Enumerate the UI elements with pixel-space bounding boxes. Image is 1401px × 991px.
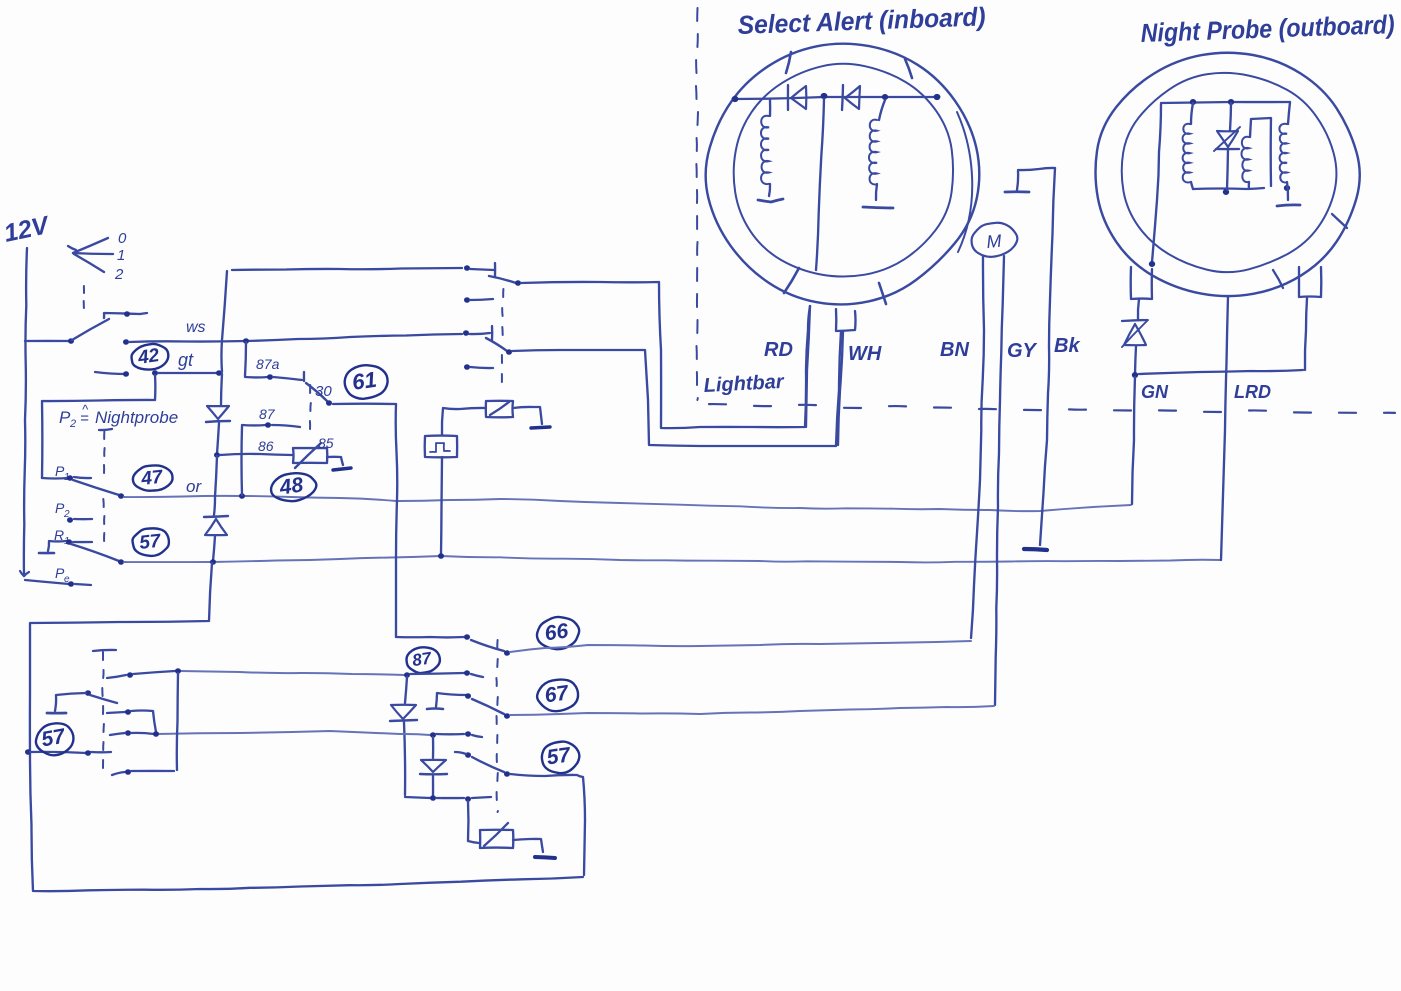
wire RD [806, 306, 810, 427]
contact dot B out [506, 349, 512, 355]
np coil2 tail [1248, 182, 1251, 189]
select alert inner ring [734, 64, 953, 277]
junction row5 box [25, 749, 31, 755]
wire row6 [131, 770, 174, 772]
wire motor GY [995, 256, 1004, 705]
svg-text:30: 30 [315, 383, 332, 400]
wire coil1 tail [769, 184, 770, 196]
stub 87 right [272, 425, 300, 427]
junction or/87coil [239, 493, 245, 499]
contact dot row6 L [125, 769, 131, 775]
stub P1 throw [74, 477, 91, 478]
contact dot row4 [465, 731, 471, 737]
wire lamp bus [735, 97, 937, 99]
np terminal dot1 [1190, 99, 1196, 105]
np ground coil3 [1277, 205, 1300, 206]
wire 87 down left [405, 677, 407, 703]
label selector position 0 [118, 230, 127, 247]
wire timer right to ground [513, 407, 542, 424]
pulse generator box [425, 436, 457, 458]
label R1 [54, 527, 70, 547]
wire BK down [1040, 168, 1055, 545]
label P1 [55, 463, 70, 483]
dashed separator horizontal [709, 404, 1395, 413]
svg-text:GY: GY [1007, 340, 1038, 362]
contact dot Pe [68, 581, 74, 587]
pulse timer box 2 [480, 823, 513, 848]
label selector position 2 [114, 266, 124, 283]
timer box T1 [486, 401, 513, 418]
np terminal dot2 [1228, 99, 1234, 105]
contact A ticks [470, 263, 495, 276]
connector WH pin [836, 309, 856, 331]
np diode D5 [1214, 127, 1240, 151]
stub Pe [75, 584, 91, 585]
wire GN diode to junction [1135, 346, 1136, 374]
wire bottom box [30, 563, 583, 891]
label Night Probe (outboard) [1140, 9, 1395, 48]
wire 87 to contact [410, 673, 464, 674]
svg-text:67: 67 [543, 681, 571, 707]
np coil1 tail [1191, 182, 1193, 189]
diode D3 [788, 85, 806, 110]
relay contact 67 circle [535, 677, 580, 714]
switch blade P1 [73, 480, 119, 495]
contact dot bottom row [465, 796, 471, 802]
np coil L4 [1242, 137, 1250, 182]
junction 86 [214, 452, 220, 458]
np coil1 hang [1191, 103, 1193, 124]
terminal dot C [821, 93, 828, 99]
wire diode bus mid [221, 374, 222, 405]
label BN [940, 339, 969, 361]
svg-text:87: 87 [259, 406, 276, 422]
relay contact 57 circle upper [131, 527, 170, 558]
wire 85 to ground [327, 457, 343, 465]
junction pulse/57 [438, 553, 444, 559]
wire pulse2 right [513, 839, 543, 852]
stub 67 bracket [427, 693, 466, 709]
np wire center top [1230, 103, 1231, 130]
diode D4 [842, 85, 860, 110]
wire right vert link [177, 673, 178, 770]
stub P2 [74, 518, 92, 521]
wire 57 bus [124, 556, 1221, 562]
arrowhead 12V bus bottom [20, 571, 29, 576]
motor M circle [969, 220, 1019, 259]
np junction bottom [1223, 189, 1229, 195]
np coil3 dot [1284, 185, 1290, 191]
wire gt stub [95, 372, 126, 374]
selector throw stub upper [104, 313, 147, 318]
svg-text:86: 86 [258, 438, 274, 454]
contact dot 87a [267, 374, 273, 380]
np coil3 tail [1287, 182, 1288, 200]
svg-text:2: 2 [114, 266, 124, 283]
relay contact 47 circle [132, 464, 174, 493]
junction bottom row left [430, 795, 436, 801]
stub 57L [455, 752, 466, 754]
switch blade A [489, 276, 516, 283]
switch blade R1 [71, 544, 119, 561]
label 86 [258, 438, 274, 454]
np terminal dot left [1149, 261, 1155, 267]
stub A nc [470, 299, 493, 300]
tick left relay top [93, 650, 116, 651]
np connector left [1131, 267, 1152, 299]
wire diode bus bottom [213, 536, 215, 561]
contact dot row5 L [85, 750, 91, 756]
ground row2 [47, 693, 86, 713]
ground top right [1005, 171, 1029, 192]
np wire bottom bus [1193, 188, 1264, 189]
tick mark SW [784, 268, 799, 293]
wire row5 [30, 752, 86, 753]
switch blade S1 [72, 319, 109, 340]
label M [986, 231, 1003, 252]
wire feed contact A [232, 268, 462, 270]
junction 87 lower [404, 672, 410, 678]
contact dot gt [123, 371, 129, 377]
label selector position 1 [117, 247, 125, 264]
contact B ticks [469, 326, 492, 340]
label P2=Nightprobe [59, 402, 178, 430]
label 12V supply [1, 211, 53, 248]
switch blade 30 [306, 383, 327, 401]
dashed link B [501, 355, 503, 382]
dashed link left relay [102, 652, 104, 768]
relay contact 61 circle [343, 362, 390, 401]
night probe outer ring [1095, 53, 1359, 296]
contact dot row2 L [85, 690, 91, 696]
selector switch S1 fan [68, 238, 113, 272]
terminal dot R [934, 94, 941, 100]
wire pulse to 57bus [441, 457, 442, 555]
pulse symbol [430, 443, 450, 452]
svg-text:57: 57 [545, 743, 573, 769]
wire 67 [510, 706, 994, 715]
diode D2 up [204, 516, 228, 535]
relay contact 57 circle lower [540, 739, 582, 775]
wire diode bus [217, 423, 219, 454]
terminal dot R2 [882, 94, 888, 100]
stub row1 L [107, 675, 126, 678]
label Bk [1054, 335, 1080, 357]
wire 30bus corner to 66 [396, 636, 464, 639]
wire 433 down [432, 737, 434, 758]
wire diode bus lower [214, 456, 217, 515]
wire ws to 87a [245, 342, 246, 376]
wire row3 [131, 711, 156, 733]
stub R1 [73, 541, 92, 543]
contact dot 87 lower [464, 670, 470, 676]
wire BK top [1018, 168, 1055, 170]
ground pulse2 [535, 857, 555, 858]
label Pe [55, 565, 70, 585]
coil L1 [761, 116, 769, 184]
junction gt/diode bus [216, 370, 222, 376]
svg-text:1: 1 [117, 247, 125, 264]
stub row6 L [112, 772, 125, 775]
wire np right pin down [1305, 298, 1307, 370]
dashed link P-switch [99, 429, 112, 473]
tick mark NW [786, 52, 791, 73]
night probe inner ring [1122, 73, 1337, 272]
np coil2 top [1250, 118, 1271, 186]
np connector right [1299, 267, 1321, 297]
contact dot row3 L [125, 709, 131, 715]
contact dot B nc [464, 364, 470, 370]
svg-text:LRD: LRD [1234, 382, 1271, 402]
terminal dot L [732, 96, 739, 102]
contact dot A out [515, 280, 521, 286]
contact dot 66 common [464, 634, 470, 640]
wire 12V left bus vertical [24, 248, 27, 576]
svg-text:ws: ws [186, 319, 206, 336]
wire row4 to contact [436, 733, 464, 736]
wire 87a right [273, 372, 304, 381]
stub B nc [470, 367, 493, 368]
wire 87 down to or [240, 426, 243, 495]
stub row4 L [110, 733, 125, 735]
contact dot A common [464, 265, 470, 271]
svg-text:0: 0 [118, 230, 127, 247]
junction row34 [153, 731, 159, 737]
wire 30 down bus [396, 404, 398, 637]
label Select Alert (inboard) [737, 1, 986, 40]
contact dot ws throw [123, 339, 129, 345]
contact dot P1 [67, 475, 73, 481]
contact dot 67 out [504, 713, 510, 719]
wire row4 L [131, 733, 154, 734]
wire coil2 hang [879, 100, 885, 120]
contact dot 66 out [504, 650, 510, 656]
junction gt left [152, 370, 158, 376]
wire to P-box top [42, 375, 155, 478]
svg-text:WH: WH [848, 343, 882, 365]
contact dot or [118, 493, 124, 499]
tick mark NE [905, 59, 912, 78]
wire D8 down [432, 776, 434, 796]
wire A out to RD [521, 282, 810, 428]
dashed link P-switch lower [103, 499, 104, 541]
wire motor BN [971, 256, 984, 638]
switch blade 66 [471, 640, 504, 651]
wire 30 out [333, 403, 396, 406]
np coil3 hang [1288, 102, 1290, 124]
np wire center [1227, 148, 1228, 190]
wire row1 [133, 671, 175, 674]
contact dot 57L common [465, 752, 471, 758]
corner to bottom row [405, 797, 430, 798]
wire coil2 tail [876, 184, 877, 200]
wire ws [129, 334, 462, 342]
wire GN down [1132, 377, 1135, 504]
svg-text:61: 61 [350, 367, 378, 395]
dashed link selector [83, 286, 85, 308]
np tick E [1332, 214, 1347, 228]
relay contact 42 circle [130, 342, 170, 372]
label GN [1141, 382, 1169, 402]
svg-text:^: ^ [82, 402, 89, 417]
contact dot P2 [67, 517, 73, 523]
np coil L3 [1183, 124, 1190, 183]
svg-text:48: 48 [277, 473, 305, 499]
wire 86 [220, 454, 292, 455]
wire 57L right [510, 774, 585, 875]
svg-text:Lightbar: Lightbar [703, 371, 785, 397]
wire 87a [245, 376, 268, 379]
svg-text:57: 57 [138, 531, 163, 554]
svg-text:Bk: Bk [1054, 335, 1080, 357]
junction 57bus [210, 559, 216, 565]
svg-text:66: 66 [543, 619, 570, 645]
wire coil1 hang [769, 100, 772, 116]
ground coil2 [863, 207, 893, 208]
junction GN [1132, 372, 1138, 378]
ground BK [1024, 549, 1047, 550]
switch blade 67 [472, 699, 504, 714]
wire P1 [42, 477, 68, 480]
dashed link A [502, 289, 503, 335]
label RD [764, 339, 793, 361]
select alert ring re-stroke [957, 112, 972, 252]
contact dot 57L out [504, 771, 510, 777]
contact dot 87 [265, 422, 271, 428]
svg-text:or: or [186, 477, 202, 496]
stub row4 [472, 735, 482, 737]
contact dot row1 L [127, 672, 133, 678]
svg-text:Nightprobe: Nightprobe [95, 408, 178, 427]
switch blade B [486, 338, 507, 351]
svg-text:2: 2 [69, 418, 76, 430]
contact dot row4 L [125, 730, 131, 736]
wire timer left [442, 408, 486, 435]
wire B out to WH [512, 331, 841, 446]
svg-text:42: 42 [136, 345, 161, 369]
dashed separator vertical [696, 8, 698, 400]
wire center lamp [816, 99, 824, 270]
label GY [1007, 340, 1038, 362]
svg-text:47: 47 [139, 467, 165, 490]
label 85 [318, 435, 334, 451]
wire bottom row [436, 797, 464, 799]
stub row5 [91, 751, 111, 754]
np tick S [1273, 270, 1283, 288]
label Lightbar [703, 371, 785, 397]
svg-text:BN: BN [940, 339, 969, 361]
relay coil 48 box [293, 443, 327, 468]
wire Pe [25, 580, 69, 584]
wire WH [838, 331, 843, 445]
svg-text:M: M [986, 231, 1003, 252]
wire GN horizontal [1139, 370, 1303, 374]
ground R1 [39, 541, 66, 553]
diode D8 [420, 760, 447, 774]
junction switch common [68, 338, 74, 344]
svg-text:85: 85 [318, 435, 334, 451]
contact dot 67 common [465, 693, 471, 699]
wire D7 down [404, 722, 405, 795]
wire LRD [1221, 296, 1228, 560]
relay coil 48 circle label [269, 470, 318, 504]
dashed link lower relay [496, 640, 498, 812]
contact dot 30 [326, 400, 332, 406]
tick mark SE [879, 283, 886, 304]
contact dot upper throw [124, 311, 130, 317]
wire or bus [124, 496, 1131, 511]
wire 87 left [242, 424, 266, 427]
label 30 [315, 383, 332, 400]
stub row3 L [107, 712, 125, 713]
junction row4 [430, 732, 436, 738]
dashed link 30/coil [309, 385, 312, 429]
junction row1 right [175, 668, 181, 674]
svg-text:RD: RD [764, 339, 793, 361]
np wire top bus [1161, 102, 1290, 103]
wire row4 feed [157, 731, 430, 735]
svg-text:GN: GN [1141, 382, 1169, 402]
label gt [178, 350, 194, 370]
label 87 [259, 406, 276, 422]
switch blade 57L [472, 757, 504, 772]
coil L2 [869, 120, 877, 185]
contact dot R1 [66, 539, 72, 545]
relay contact 66 circle [535, 614, 582, 652]
svg-text:gt: gt [178, 350, 194, 370]
label or [186, 477, 202, 496]
junction ws/87a [243, 338, 249, 344]
wire 12V to switch common [25, 340, 70, 342]
ground 48 coil [333, 468, 351, 470]
wire gt [158, 372, 219, 374]
contact dot 57wire [118, 559, 124, 565]
label LRD [1234, 382, 1271, 402]
switch blade row2 [90, 695, 117, 703]
diode D1 down [206, 406, 230, 422]
np coil L5 [1279, 124, 1287, 183]
relay contact 57 circle left [33, 721, 76, 759]
stub bottom row [472, 797, 491, 798]
diode D6 GN [1122, 320, 1148, 347]
label ws [186, 319, 206, 336]
contact dot B common [463, 330, 469, 336]
wire to pulse2 [468, 801, 479, 843]
ground timer [531, 427, 550, 428]
select alert outer ring [706, 44, 980, 305]
label 87a [256, 356, 280, 372]
stub 87 lower [471, 674, 483, 677]
label WH [848, 343, 882, 365]
np wire left leg [1152, 104, 1161, 262]
wire top feed corner [221, 271, 227, 372]
label P2 [55, 500, 70, 520]
relay contact 87 circle lower [405, 645, 441, 675]
wire 87 feed [180, 671, 404, 675]
contact dot A nc [464, 297, 470, 303]
wire np left pin down [1138, 299, 1139, 320]
wire 66 [510, 641, 971, 652]
ground coil1 [758, 199, 783, 202]
diode D7 [390, 705, 417, 721]
svg-text:87a: 87a [256, 356, 280, 372]
